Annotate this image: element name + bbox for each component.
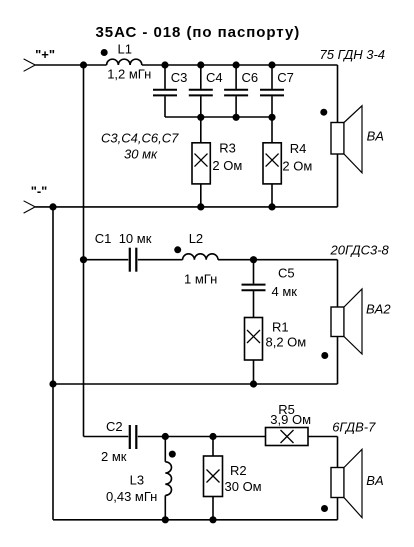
resistor R2 — [204, 437, 223, 520]
label C1 — [95, 231, 112, 246]
label C6 — [242, 70, 259, 85]
wire midrange top right — [218, 259, 338, 261]
capacitor C2 — [84, 425, 266, 449]
label C7 — [277, 70, 294, 85]
label "-" — [31, 184, 48, 199]
junction node C3 top — [161, 61, 168, 68]
value 1,2 мГн — [107, 67, 151, 82]
svg-text:30 Ом: 30 Ом — [225, 479, 262, 494]
svg-text:L2: L2 — [189, 231, 203, 246]
wire plus feed vertical — [83, 65, 85, 437]
inductor L2 — [183, 254, 218, 260]
svg-text:R1: R1 — [272, 319, 289, 334]
wire midrange bottom rail — [53, 383, 338, 385]
junction node L3 bottom — [162, 516, 169, 523]
junction node C4 bottom — [197, 114, 204, 121]
value 0,43 мГн — [106, 489, 157, 504]
label 20ГДС3-8 — [330, 243, 390, 258]
junction node R3 bottom — [197, 203, 204, 210]
junction node C6 bottom — [233, 114, 240, 121]
polarity dot BA woofer — [320, 109, 327, 116]
resistor R4 — [263, 117, 281, 207]
label C2 — [106, 419, 123, 434]
svg-text:C6: C6 — [242, 70, 259, 85]
value 2 мк — [101, 449, 127, 464]
svg-text:R3: R3 — [219, 141, 236, 156]
svg-text:C3,C4,C6,C7: C3,C4,C6,C7 — [101, 131, 179, 146]
label "+" — [35, 47, 55, 62]
svg-text:1 мГн: 1 мГн — [184, 272, 217, 287]
polarity dot BA tweeter — [321, 505, 328, 512]
value label 30 мк — [124, 147, 158, 162]
junction node L3 top — [162, 433, 169, 440]
svg-text:75 ГДН 3-4: 75 ГДН 3-4 — [320, 47, 386, 62]
svg-text:L3: L3 — [130, 473, 144, 488]
svg-text:BA: BA — [367, 128, 384, 143]
svg-text:4 мк: 4 мк — [272, 284, 298, 299]
capacitor C5 — [242, 260, 266, 318]
svg-text:6ГДВ-7: 6ГДВ-7 — [332, 420, 376, 435]
label R4 — [290, 141, 307, 156]
svg-text:20ГДС3-8: 20ГДС3-8 — [330, 243, 390, 258]
svg-text:C3: C3 — [171, 70, 188, 85]
label L3 — [130, 473, 144, 488]
svg-text:30 мк: 30 мк — [124, 147, 158, 162]
value 30 Ом — [225, 479, 262, 494]
loudspeaker BA2 midrange — [331, 289, 362, 354]
value label C3,C4,C6,C7 — [101, 131, 179, 146]
capacitor C7 — [260, 65, 284, 117]
svg-text:C2: C2 — [106, 419, 123, 434]
label C5 — [278, 265, 295, 280]
label C3 — [171, 70, 188, 85]
inductor L3 — [165, 437, 171, 520]
label R2 — [230, 463, 247, 478]
label BA2 — [366, 301, 391, 316]
svg-text:2 Ом: 2 Ом — [212, 158, 242, 173]
junction node R4 bottom — [268, 203, 275, 210]
junction node midrange rail left — [49, 380, 56, 387]
inductor L1 — [107, 59, 142, 65]
svg-text:10 мк: 10 мк — [119, 231, 152, 246]
junction node C1 input — [80, 256, 87, 263]
resistor R3 — [192, 117, 210, 207]
junction node C4 top — [197, 61, 204, 68]
svg-text:"-": "-" — [31, 184, 48, 199]
svg-text:0,43 мГн: 0,43 мГн — [106, 489, 157, 504]
wire minus feed vertical — [52, 207, 54, 520]
svg-text:BA: BA — [366, 473, 383, 488]
loudspeaker BA woofer — [331, 106, 362, 173]
junction node plus rail / plus feed — [80, 61, 87, 68]
value 8,2 Ом — [266, 335, 307, 350]
wire midrange right vertical — [337, 260, 339, 384]
label L1 — [118, 42, 132, 57]
junction node C7 top — [268, 61, 275, 68]
input terminal "-" — [24, 201, 36, 213]
resistor R1 — [245, 318, 263, 385]
value 10 мк — [119, 231, 152, 246]
svg-text:R2: R2 — [230, 463, 247, 478]
wire tweeter right vertical — [337, 437, 339, 520]
wire woofer right vertical — [337, 65, 339, 207]
value 3,9 Ом — [270, 412, 311, 427]
capacitor C3 — [153, 65, 177, 117]
polarity dot BA2 — [321, 352, 328, 359]
svg-text:8,2 Ом: 8,2 Ом — [266, 335, 307, 350]
value 2 Ом R4 — [282, 158, 312, 173]
junction node C7 bottom — [268, 114, 275, 121]
junction node C6 top — [233, 61, 240, 68]
label R1 — [272, 319, 289, 334]
wire minus rail — [35, 206, 337, 208]
junction node R1 bottom — [250, 380, 257, 387]
label R5 — [278, 402, 295, 417]
capacitor C6 — [224, 65, 248, 117]
svg-text:C7: C7 — [277, 70, 294, 85]
svg-text:1,2 мГн: 1,2 мГн — [107, 67, 151, 82]
svg-text:"+": "+" — [35, 47, 55, 62]
wire caps bottom rail — [165, 116, 272, 118]
label C4 — [206, 70, 223, 85]
junction node L2 out / C5 top — [250, 256, 257, 263]
svg-text:2 мк: 2 мк — [101, 449, 127, 464]
loudspeaker BA tweeter — [331, 449, 362, 517]
polarity dot L3 — [169, 451, 176, 458]
svg-text:3,9 Ом: 3,9 Ом — [270, 412, 311, 427]
svg-text:35АС - 018 (по паспорту): 35АС - 018 (по паспорту) — [96, 24, 301, 41]
polarity dot L2 — [174, 246, 181, 253]
label L2 — [189, 231, 203, 246]
label BA woofer — [367, 128, 384, 143]
value 4 мк — [272, 284, 298, 299]
value 2 Ом R3 — [212, 158, 242, 173]
svg-text:2 Ом: 2 Ом — [282, 158, 312, 173]
resistor R5 — [266, 428, 338, 446]
junction node R2 bottom — [209, 516, 216, 523]
label 75 ГДН 3-4 — [320, 47, 386, 62]
svg-text:C4: C4 — [206, 70, 223, 85]
junction node R2 top — [209, 433, 216, 440]
polarity dot L1 — [101, 49, 108, 56]
value 1 мГн — [184, 272, 217, 287]
title — [96, 24, 301, 41]
capacitor C4 — [189, 65, 213, 117]
svg-text:L1: L1 — [118, 42, 132, 57]
svg-text:C5: C5 — [278, 265, 295, 280]
input terminal "+" — [24, 59, 36, 71]
wire plus rail right — [142, 64, 338, 66]
label 6ГДВ-7 — [332, 420, 376, 435]
wire plus rail left — [35, 64, 106, 66]
svg-text:R4: R4 — [290, 141, 307, 156]
junction node minus rail / minus feed — [49, 203, 56, 210]
capacitor C1 — [84, 248, 183, 272]
wire bottom rail — [53, 519, 338, 521]
label R3 — [219, 141, 236, 156]
label BA tweeter — [366, 473, 383, 488]
svg-text:BA2: BA2 — [366, 301, 391, 316]
svg-text:C1: C1 — [95, 231, 112, 246]
